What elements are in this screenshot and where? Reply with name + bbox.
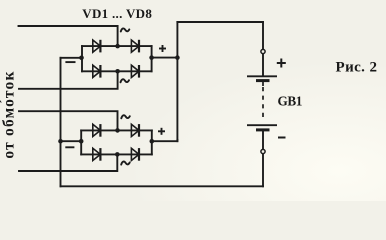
svg-text:Рис. 2: Рис. 2 — [336, 59, 378, 75]
junction dot bridge1 left node — [79, 56, 84, 61]
minus sign battery negative — [278, 137, 286, 139]
wire W2 (from winding, bottom input of bridge 1) — [19, 71, 118, 89]
diode VD6 — [131, 124, 139, 137]
bridge 2 plus output wire — [152, 140, 178, 141]
negative rail vertical wire (left drop) — [60, 58, 62, 187]
junction dot positive bus — [175, 55, 180, 60]
AC tilde node input 3 — [121, 115, 130, 118]
diode VD1 — [93, 40, 101, 53]
AC tilde node input 4 — [121, 162, 130, 165]
bridge 1 bottom branch wire — [82, 70, 152, 72]
bridge 1 minus output wire — [61, 57, 83, 60]
battery GB1 positive terminal circle — [261, 49, 265, 53]
diode VD2 — [131, 40, 139, 53]
battery GB1 bottom cell negative plate — [256, 128, 270, 131]
battery GB1 top cell negative plate — [256, 79, 270, 82]
diode VD7 — [93, 148, 101, 161]
battery GB1 bottom cell positive plate — [247, 124, 277, 126]
bridge 1 plus output wire — [152, 57, 178, 59]
plus sign bridge1 output — [159, 45, 166, 52]
junction dot bridge1 bottom mid — [115, 69, 120, 74]
battery GB1 inter-cell stub wire — [262, 81, 264, 86]
bridge 2 left vertical wire — [80, 130, 82, 154]
battery GB1 negative terminal circle — [261, 149, 265, 153]
minus sign bridge1 output — [65, 61, 75, 63]
positive bus vertical wire — [176, 22, 178, 141]
junction dot bridge1 right node — [149, 55, 154, 60]
bridge 1 left vertical wire — [81, 46, 83, 71]
plus sign bridge2 output — [158, 128, 165, 135]
battery GB1 top cell positive plate — [247, 75, 277, 77]
AC tilde node input 2 — [121, 79, 130, 82]
battery bottom lead wire — [262, 131, 264, 186]
junction dot bridge2 left node — [79, 139, 84, 144]
svg-text:от обмо́ток: от обмо́ток — [1, 70, 18, 158]
junction dot bridge2 bottom mid — [115, 152, 120, 157]
AC tilde node input 1 — [121, 28, 130, 31]
minus sign bridge2 output — [65, 146, 74, 148]
wire W4 (from winding, bottom input of bridge 2) — [19, 154, 117, 171]
bridge 2 right vertical wire — [151, 130, 153, 154]
bridge 1 right vertical wire — [151, 46, 153, 71]
junction dot bridge1 top mid — [115, 44, 120, 49]
wire W1 (from winding, top input of bridge 1) — [19, 26, 118, 46]
battery GB1 omitted-cells dashed line — [262, 87, 264, 121]
bridge 2 bottom branch wire — [81, 153, 152, 155]
bridge 2 top branch wire — [81, 129, 152, 131]
plus sign battery positive — [277, 59, 286, 68]
junction dot bridge2 top mid — [115, 128, 120, 133]
wire W3 (from winding, top input of bridge 2) — [19, 111, 118, 130]
bridge 2 minus output wire — [61, 140, 82, 142]
junction dot negative rail — [58, 139, 63, 144]
positive top wire to battery — [177, 21, 263, 23]
bridge 1 top branch wire — [82, 45, 152, 47]
svg-text:VD1 ... VD8: VD1 ... VD8 — [82, 6, 152, 21]
junction dot bridge2 right node — [150, 139, 155, 144]
diode VD3 — [93, 65, 101, 78]
diode VD4 — [131, 65, 139, 78]
svg-text:GB1: GB1 — [278, 94, 302, 109]
negative rail bottom bus wire — [61, 185, 264, 187]
battery top lead wire — [262, 22, 264, 76]
diode VD8 — [131, 148, 139, 161]
diode VD5 — [93, 124, 101, 137]
